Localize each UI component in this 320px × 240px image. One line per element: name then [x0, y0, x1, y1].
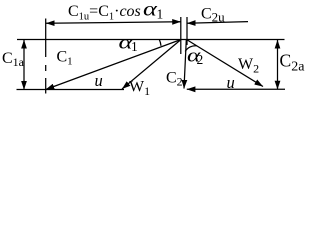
svg-text:α: α [143, 0, 158, 21]
svg-text:C2u: C2u [201, 6, 225, 25]
svg-text:C2a: C2a [280, 51, 306, 75]
svg-text:1: 1 [131, 39, 138, 54]
svg-text:W2: W2 [238, 56, 259, 76]
svg-text:C1u=C1·cos: C1u=C1·cos [68, 3, 141, 22]
svg-text:u: u [227, 73, 235, 92]
svg-text:u: u [95, 71, 103, 90]
svg-text:C1a: C1a [2, 50, 25, 69]
svg-text:1: 1 [157, 6, 164, 21]
svg-text:C1: C1 [57, 49, 73, 68]
svg-text:2: 2 [197, 52, 204, 67]
svg-text:C2: C2 [166, 70, 183, 89]
svg-text:W1: W1 [129, 79, 150, 99]
